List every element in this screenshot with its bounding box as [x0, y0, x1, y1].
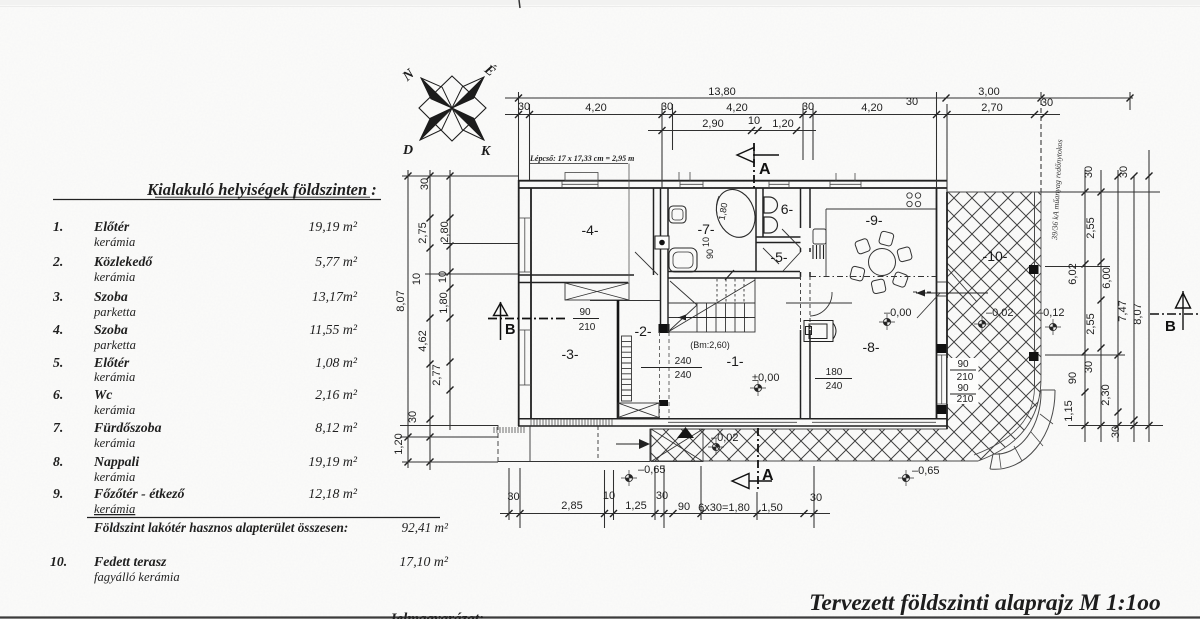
bottom border line	[0, 616, 1200, 618]
fireplace room8	[804, 321, 836, 342]
svg-text:4,62: 4,62	[417, 330, 429, 351]
wall hall | rooms 8-9	[801, 188, 811, 418]
svg-text:-8-: -8-	[862, 339, 879, 355]
svg-text:Előtér: Előtér	[93, 355, 130, 370]
svg-text:30: 30	[1118, 166, 1130, 178]
svg-text:19,19 m²: 19,19 m²	[308, 454, 357, 469]
svg-text:8,12 m²: 8,12 m²	[315, 420, 358, 435]
svg-text:Szoba: Szoba	[94, 289, 128, 304]
hall top line	[590, 300, 660, 302]
svg-text:Földszint lakótér hasznos alap: Földszint lakótér hasznos alapterület ös…	[93, 520, 348, 535]
svg-text:5.: 5.	[53, 355, 63, 370]
svg-text:9.: 9.	[53, 486, 63, 501]
svg-text:7,47: 7,47	[1117, 300, 1129, 321]
svg-text:180: 180	[826, 367, 843, 378]
svg-text:–0,02: –0,02	[986, 307, 1014, 319]
terrace rounded corner inner	[974, 387, 1035, 455]
left extension lines	[402, 175, 518, 177]
row 9 Fözötér-étkezö	[53, 486, 358, 501]
svg-text:6,02: 6,02	[1067, 263, 1079, 284]
svg-text:–0,00: –0,00	[884, 307, 912, 319]
corner steps arcs	[990, 390, 1055, 469]
section marker A top	[737, 143, 779, 188]
svg-text:12,18 m²: 12,18 m²	[308, 486, 357, 501]
bathroom tub	[710, 184, 762, 243]
svg-text:10.: 10.	[50, 554, 67, 569]
svg-text:30: 30	[507, 491, 519, 503]
svg-text:30: 30	[802, 101, 814, 113]
svg-text:–0,02: –0,02	[711, 432, 739, 444]
svg-text:3.: 3.	[52, 289, 63, 304]
kitchen appliance hatch	[813, 245, 824, 259]
svg-text:kerámia: kerámia	[94, 502, 135, 516]
svg-text:8,07: 8,07	[395, 290, 407, 311]
svg-text:A: A	[759, 161, 771, 178]
svg-text:7.: 7.	[53, 420, 63, 435]
top dim line 30/4,20 chain	[505, 114, 1060, 116]
compass SW point	[420, 108, 452, 140]
porch edge ticks	[494, 427, 524, 433]
outer top wall	[518, 181, 947, 188]
svg-text:Előtér: Előtér	[93, 219, 130, 234]
svg-text:2,80: 2,80	[439, 221, 451, 242]
svg-text:-10-: -10-	[983, 248, 1008, 264]
row 5 Elötér	[53, 355, 358, 370]
svg-text:-1-: -1-	[726, 353, 743, 369]
row 1 Elotér	[53, 219, 358, 234]
section marker B right	[1150, 291, 1198, 335]
top dim line 13,80 / 3,00	[505, 97, 1133, 99]
table subtotal rule	[87, 517, 440, 519]
svg-text:B: B	[505, 322, 515, 338]
terrace right inner edge	[1034, 192, 1036, 387]
svg-text:2,75: 2,75	[417, 222, 429, 243]
svg-text:2,85: 2,85	[561, 500, 582, 512]
svg-text:1,50: 1,50	[761, 502, 782, 514]
svg-text:30: 30	[407, 411, 419, 423]
porch left steps	[498, 425, 650, 462]
top extension lines	[518, 92, 520, 180]
wall room3 | room2	[617, 300, 620, 418]
svg-text:1,15: 1,15	[1063, 400, 1075, 421]
svg-text:A: A	[762, 467, 774, 484]
svg-text:Wc: Wc	[94, 387, 112, 402]
svg-text:210: 210	[957, 394, 974, 405]
stair note	[529, 154, 634, 300]
svg-text:Jelmagyarázat:: Jelmagyarázat:	[388, 611, 484, 619]
wc + bidet room6	[764, 197, 778, 233]
bottom wall glass sills	[668, 421, 936, 423]
room number labels	[561, 201, 1007, 369]
svg-text:17,10 m²: 17,10 m²	[399, 554, 448, 569]
crossed box under stair	[618, 403, 659, 418]
svg-text:10: 10	[701, 237, 711, 247]
compass rose	[419, 76, 486, 141]
svg-text:10: 10	[748, 115, 760, 127]
wall room7 | room5-6	[756, 188, 763, 272]
svg-text:1,20: 1,20	[393, 433, 405, 454]
svg-text:19,19 m²: 19,19 m²	[308, 219, 357, 234]
compass diamond outline	[419, 76, 486, 141]
svg-text:1,20: 1,20	[772, 118, 793, 130]
svg-text:30: 30	[419, 178, 431, 190]
row 3 Szoba	[52, 289, 358, 304]
svg-text:2,90: 2,90	[702, 118, 723, 130]
chairs	[849, 231, 912, 294]
row 7 Fürdöszoba	[53, 420, 358, 435]
svg-text:30: 30	[518, 101, 530, 113]
svg-text:30: 30	[661, 101, 673, 113]
svg-text:parketta: parketta	[93, 305, 136, 319]
rotated small labels bathroom	[701, 202, 729, 259]
svg-text:6.: 6.	[53, 387, 63, 402]
svg-text:2,55: 2,55	[1085, 217, 1097, 238]
svg-text:30: 30	[656, 490, 668, 502]
closet crossed box	[565, 283, 629, 300]
rotated dim numbers right	[1063, 166, 1144, 438]
row 8 Nappali	[53, 454, 358, 469]
svg-text:1.: 1.	[53, 219, 63, 234]
top wall exterior sill boxes	[565, 172, 855, 181]
kitchen sink	[813, 229, 826, 244]
terrace 10 + walkway paving hatch	[650, 192, 1041, 461]
left wall window sills	[519, 218, 531, 385]
svg-text:(Bm:2,60): (Bm:2,60)	[690, 340, 730, 350]
stair wall pier	[659, 324, 670, 333]
svg-text:-7-: -7-	[697, 221, 714, 237]
wall room2 | stair	[661, 278, 669, 332]
outer left wall	[519, 180, 531, 426]
terrace door diag + steps	[913, 268, 977, 318]
svg-text:Nappali: Nappali	[93, 454, 139, 469]
entry arrow	[616, 439, 650, 449]
basement ladder	[622, 336, 632, 401]
door arc hall to kitchen	[810, 292, 832, 316]
room schedule table	[50, 180, 449, 584]
wall room4 | room7	[654, 188, 669, 278]
dashed hall edges below stair	[660, 332, 670, 418]
svg-text:kerámia: kerámia	[94, 470, 135, 484]
section marker A bottom	[732, 428, 774, 492]
room9 kitchen counter	[826, 209, 936, 276]
rotated dim numbers left	[393, 178, 451, 455]
row 2 Közlekedö	[52, 254, 358, 269]
svg-text:6x30=1,80: 6x30=1,80	[698, 502, 750, 514]
section marker B left	[488, 302, 568, 340]
svg-text:4,20: 4,20	[861, 102, 882, 114]
scan top gray band	[0, 0, 1200, 5]
stove burners	[907, 193, 921, 207]
duct pier with dot	[655, 236, 669, 249]
wall room4 | room3	[518, 275, 634, 283]
svg-text:10: 10	[411, 273, 423, 285]
svg-text:Szoba: Szoba	[94, 322, 128, 337]
svg-text:2,77: 2,77	[431, 364, 443, 385]
svg-text:90: 90	[957, 383, 969, 394]
dining table	[869, 249, 896, 276]
svg-text:11,55 m²: 11,55 m²	[309, 322, 357, 337]
svg-text:30: 30	[1041, 97, 1053, 109]
svg-text:240: 240	[675, 356, 692, 367]
svg-text:2.: 2.	[52, 254, 63, 269]
svg-text:Lépcső: 17 x 17,33 cm = 2,95 m: Lépcső: 17 x 17,33 cm = 2,95 m	[529, 154, 634, 163]
door size labels	[573, 307, 979, 405]
svg-text:6-: 6-	[781, 201, 794, 217]
svg-text:2,55: 2,55	[1085, 313, 1097, 334]
svg-text:90: 90	[1067, 372, 1079, 384]
svg-text:210: 210	[579, 322, 596, 333]
compass letters	[399, 60, 499, 159]
svg-text:240: 240	[675, 370, 692, 381]
svg-text:92,41 m²: 92,41 m²	[402, 520, 449, 535]
right dim chains	[1084, 170, 1086, 442]
row 4 Szoba	[52, 322, 358, 337]
svg-text:K: K	[480, 144, 492, 159]
dimension numbers	[507, 86, 1053, 514]
svg-text:30: 30	[810, 492, 822, 504]
top wall window sills	[562, 181, 861, 188]
svg-text:-9-: -9-	[865, 212, 882, 228]
slash over stair top wall	[725, 270, 734, 280]
svg-text:Fürdőszoba: Fürdőszoba	[93, 420, 162, 435]
90/210 labels terrace doors	[948, 358, 979, 404]
svg-text:Főzőtér - étkező: Főzőtér - étkező	[93, 486, 186, 501]
entry crossed box	[651, 429, 703, 462]
row 10 Fedett terasz	[50, 554, 449, 569]
svg-text:30: 30	[1110, 426, 1122, 438]
svg-text:kerámia: kerámia	[94, 235, 135, 249]
bottom extension lines	[508, 468, 510, 520]
svg-text:10: 10	[437, 271, 449, 283]
svg-text:fagyálló kerámia: fagyálló kerámia	[94, 570, 180, 584]
room9 open edge dash line	[810, 276, 936, 278]
svg-text:D: D	[402, 143, 413, 158]
scan mark top	[519, 0, 520, 8]
door swings room5 area	[763, 229, 801, 271]
compass NW point	[421, 78, 452, 108]
svg-text:2,30: 2,30	[1100, 384, 1112, 405]
svg-text:8,07: 8,07	[1132, 303, 1144, 324]
room4 door swing	[635, 252, 658, 275]
svg-text:Fedett terasz: Fedett terasz	[93, 554, 167, 569]
left dim chains	[407, 170, 409, 468]
svg-text:210: 210	[957, 372, 974, 383]
compass SE point	[452, 108, 484, 140]
row 6 Wc	[53, 387, 358, 402]
bottom wall hatch ticks room 3	[531, 419, 612, 426]
svg-text:90: 90	[678, 501, 690, 513]
svg-text:1,80: 1,80	[438, 292, 450, 313]
svg-text:6,00: 6,00	[1101, 267, 1113, 288]
svg-text:30: 30	[1083, 166, 1095, 178]
svg-text:-3-: -3-	[561, 346, 578, 362]
svg-text:90: 90	[579, 307, 591, 318]
svg-text:90: 90	[957, 359, 969, 370]
svg-text:8.: 8.	[53, 454, 63, 469]
svg-text:1,08 m²: 1,08 m²	[315, 355, 358, 370]
stair walk arrow	[678, 315, 748, 321]
svg-text:-4-: -4-	[581, 222, 598, 238]
svg-text:±0,00: ±0,00	[752, 372, 779, 384]
entry triangle marker	[677, 427, 694, 438]
svg-text:5,77 m²: 5,77 m²	[315, 254, 358, 269]
outer bottom wall	[518, 419, 947, 426]
svg-text:4,20: 4,20	[726, 102, 747, 114]
bathroom sink small	[669, 206, 686, 223]
terrace entry arrow	[916, 290, 988, 297]
right wall window sill	[937, 355, 948, 404]
elevation marks	[621, 307, 1065, 486]
svg-text:kerámia: kerámia	[94, 436, 135, 450]
outer right wall (to terrace)	[937, 188, 948, 429]
svg-text:Tervezett földszinti alaprajz: Tervezett földszinti alaprajz M 1:1oo	[809, 590, 1161, 616]
svg-text:30: 30	[906, 96, 918, 108]
svg-text:–0,12: –0,12	[1037, 307, 1065, 319]
svg-text:30: 30	[1083, 361, 1095, 373]
svg-text:90: 90	[705, 249, 715, 259]
top dim line 2,90/10/1,20	[648, 130, 816, 132]
svg-text:2,70: 2,70	[981, 102, 1002, 114]
dashed opening hall to room8	[801, 276, 811, 330]
compass NE point	[452, 77, 484, 108]
svg-text:kerámia: kerámia	[94, 403, 135, 417]
svg-text:4.: 4.	[52, 322, 63, 337]
svg-text:13,80: 13,80	[708, 86, 736, 98]
table title rule	[53, 199, 381, 201]
svg-text:kerámia: kerámia	[94, 270, 135, 284]
bathroom vanity	[669, 248, 697, 272]
svg-text:-5-: -5-	[770, 249, 787, 265]
compass diagonal lines	[420, 77, 484, 140]
svg-text:–0,65: –0,65	[912, 465, 940, 477]
right extension lines	[1041, 191, 1160, 193]
svg-text:10: 10	[603, 490, 615, 502]
svg-text:-2-: -2-	[634, 323, 651, 339]
svg-text:13,17m²: 13,17m²	[312, 289, 358, 304]
wall room7 bottom	[668, 272, 800, 279]
terrace black piers	[937, 344, 947, 353]
svg-text:Közlekedő: Közlekedő	[93, 254, 153, 269]
wall room6 | room5	[756, 237, 801, 243]
svg-text:–0,65: –0,65	[638, 464, 666, 476]
svg-text:3,00: 3,00	[978, 86, 999, 98]
svg-text:Kialakuló helyiségek földszint: Kialakuló helyiségek földszinten :	[146, 180, 377, 199]
svg-text:kerámia: kerámia	[94, 370, 135, 384]
svg-text:B: B	[1165, 318, 1176, 335]
svg-text:2,16 m²: 2,16 m²	[315, 387, 358, 402]
bottom dim chain	[500, 513, 830, 515]
svg-text:4,20: 4,20	[585, 102, 606, 114]
svg-text:1,25: 1,25	[625, 500, 646, 512]
svg-text:240: 240	[826, 381, 843, 392]
staircase	[668, 278, 755, 332]
svg-text:parketta: parketta	[93, 338, 136, 352]
